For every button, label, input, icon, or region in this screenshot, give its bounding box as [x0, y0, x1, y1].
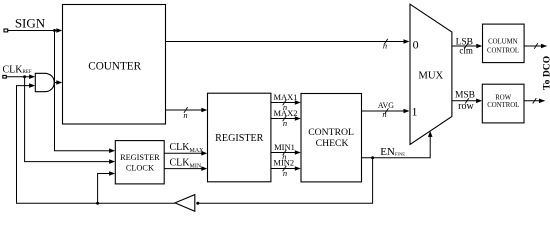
svg-text:n: n — [283, 118, 287, 128]
svg-text:ROW: ROW — [495, 95, 511, 102]
svg-text:n: n — [382, 109, 386, 119]
svg-text:AVG: AVG — [378, 101, 394, 110]
svg-text:REGISTER: REGISTER — [120, 153, 160, 162]
svg-text:To DCO: To DCO — [541, 56, 550, 90]
svg-text:CHECK: CHECK — [316, 138, 349, 149]
svg-text:COLUMN: COLUMN — [488, 39, 518, 46]
svg-text:n: n — [283, 102, 287, 112]
svg-text:row: row — [458, 101, 474, 112]
svg-text:COUNTER: COUNTER — [88, 61, 141, 73]
svg-text:1: 1 — [412, 105, 418, 119]
svg-text:MAX1: MAX1 — [273, 92, 297, 102]
svg-text:SIGN: SIGN — [15, 16, 46, 31]
svg-text:MUX: MUX — [418, 70, 443, 82]
svg-text:clm: clm — [459, 46, 473, 56]
svg-text:CONTROL: CONTROL — [308, 127, 354, 138]
svg-text:n: n — [282, 152, 286, 162]
svg-text:CLOCK: CLOCK — [126, 164, 154, 173]
svg-text:0: 0 — [413, 38, 419, 52]
svg-text:n: n — [383, 41, 387, 51]
svg-text:n: n — [283, 168, 287, 178]
svg-text:CONTROL: CONTROL — [487, 47, 519, 54]
svg-text:MSB: MSB — [455, 91, 475, 101]
svg-text:REGISTER: REGISTER — [215, 133, 263, 144]
svg-text:n: n — [183, 110, 187, 120]
svg-text:CONTROL: CONTROL — [487, 102, 519, 109]
